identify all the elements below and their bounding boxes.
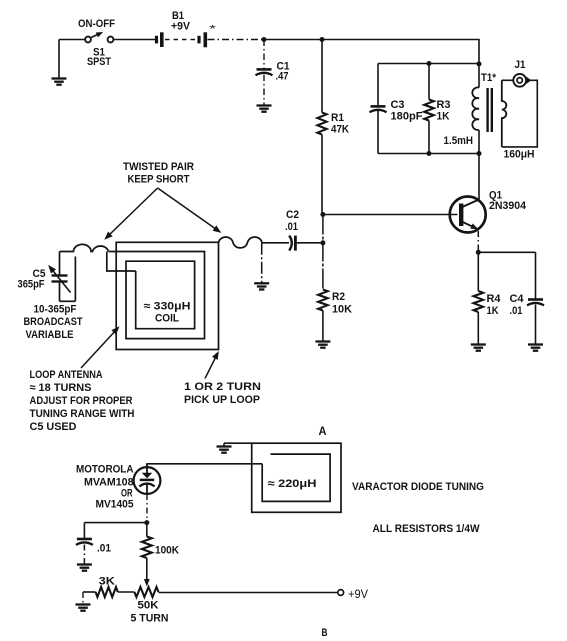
wire - base wire from R1 column to Q1 xyxy=(322,214,458,216)
svg-text:BROADCAST: BROADCAST xyxy=(24,316,83,328)
svg-text:ALL RESISTORS 1/4W: ALL RESISTORS 1/4W xyxy=(373,523,481,535)
transformer T1 core xyxy=(486,88,488,132)
svg-text:1K: 1K xyxy=(437,111,450,123)
jack J1 xyxy=(513,74,526,87)
ground - below switch S1 xyxy=(58,40,60,79)
svg-text:ADJUST FOR PROPER: ADJUST FOR PROPER xyxy=(30,395,133,407)
wire - emitter junction to C4 xyxy=(478,251,535,253)
wire - twisted pair to C2 xyxy=(262,242,263,244)
ground - below R4 xyxy=(471,343,486,345)
wire - ground drop from twisted pair xyxy=(261,243,263,283)
svg-text:SPST: SPST xyxy=(87,56,111,68)
wire - dashed link between battery cells xyxy=(165,39,196,41)
resistor R2 xyxy=(318,290,328,311)
wire - tank box left edge with C3 xyxy=(377,64,379,107)
transistor Q1 2N3904 xyxy=(450,197,486,233)
potentiometer 50K 5 TURN xyxy=(134,587,158,597)
ground - below right twisted pair xyxy=(254,282,269,284)
svg-text:50K: 50K xyxy=(138,600,159,612)
wire - varactor cathode down xyxy=(146,494,148,523)
transformer T1 primary winding xyxy=(478,64,480,88)
svg-text:≈ 330μH: ≈ 330μH xyxy=(144,301,191,313)
wire - arrow to left twisted pair xyxy=(107,188,158,238)
ground - below C1 xyxy=(257,104,272,106)
capacitor C2 xyxy=(262,242,289,244)
battery B1 cell 1 xyxy=(155,36,158,44)
resistor 100K xyxy=(146,523,148,537)
capacitor C4 xyxy=(528,298,543,301)
capacitor C1 xyxy=(263,40,265,70)
ground - below C4 xyxy=(528,343,543,345)
wire - arrow from LOOP ANTENNA text to coil xyxy=(81,329,118,369)
svg-text:J1: J1 xyxy=(515,59,526,71)
capacitor C5 variable xyxy=(59,252,61,276)
svg-text:ON-OFF: ON-OFF xyxy=(78,18,115,30)
svg-text:VARIABLE: VARIABLE xyxy=(26,329,74,341)
node - varactor bias junction xyxy=(144,520,149,525)
terminal +9V xyxy=(338,590,344,596)
capacitor C3 xyxy=(371,105,386,108)
node - tank bottom junction at T1 xyxy=(477,151,482,156)
loop antenna coil spiral xyxy=(109,252,205,339)
svg-text:.01: .01 xyxy=(510,305,523,317)
wire - switch to battery xyxy=(113,39,155,41)
svg-text:C2: C2 xyxy=(286,209,299,221)
varactor tuning coil outer box xyxy=(252,443,341,512)
ground - varactor tuning coil xyxy=(224,442,252,444)
pick up loop rectangle xyxy=(116,242,218,349)
wire - left twisted pair xyxy=(60,244,109,251)
wire - arrow from PICK UP LOOP text to loop xyxy=(205,354,218,379)
svg-text:1.5mH: 1.5mH xyxy=(444,135,474,147)
svg-text:KEEP SHORT: KEEP SHORT xyxy=(128,174,190,186)
battery B1 cell 2 xyxy=(197,36,200,44)
resistor 3K xyxy=(96,587,118,597)
wire - bottom rail to +9V terminal xyxy=(159,592,338,594)
svg-text:C3: C3 xyxy=(391,99,405,111)
wire - battery to node, dash-dot xyxy=(208,39,264,41)
svg-text:10K: 10K xyxy=(332,304,352,316)
svg-text:TUNING RANGE WITH: TUNING RANGE WITH xyxy=(30,408,135,420)
wire - tank box top edge xyxy=(378,63,479,65)
wire - top rail R1 node to right corner and down xyxy=(322,40,479,64)
wire - secondary top to jack J1 xyxy=(502,79,513,81)
wire - tank box bottom edge xyxy=(378,153,479,155)
wire - junction to bypass cap xyxy=(84,522,146,524)
node - emitter junction xyxy=(476,250,481,255)
svg-text:R2: R2 xyxy=(332,291,345,303)
svg-text:≈ 220μH: ≈ 220μH xyxy=(268,478,317,490)
svg-text:5 TURN: 5 TURN xyxy=(131,613,169,625)
svg-text:A: A xyxy=(319,426,327,438)
svg-text:MOTOROLA: MOTOROLA xyxy=(76,464,134,476)
wire - top rail C1 node to R1 node xyxy=(264,39,322,41)
svg-text:1K: 1K xyxy=(487,305,499,317)
wire - arrow to right twisted pair xyxy=(158,188,219,231)
ground - below R2 xyxy=(315,340,330,342)
wire - tank to Q1 collector xyxy=(478,154,480,202)
svg-text:365pF: 365pF xyxy=(18,279,45,291)
capacitor .01 bypass xyxy=(77,538,92,541)
svg-text:100K: 100K xyxy=(155,545,179,557)
wire - top rail left segment from switch corner xyxy=(59,39,85,41)
wire - bottom rail left end xyxy=(83,591,96,593)
resistor R1 xyxy=(321,40,323,113)
svg-text:COIL: COIL xyxy=(155,313,179,325)
svg-text:3K: 3K xyxy=(99,576,115,588)
svg-text:*: * xyxy=(209,24,216,35)
wire - varactor anode to coil xyxy=(147,464,262,467)
node - tank top junction at T1 xyxy=(477,61,482,66)
wire - antenna feed into spiral xyxy=(107,252,136,272)
resistor R4 xyxy=(477,252,479,291)
svg-text:C5 USED: C5 USED xyxy=(30,421,77,433)
svg-text:R1: R1 xyxy=(331,112,344,124)
wire - 3K to 50K pot xyxy=(118,591,135,593)
svg-text:C4: C4 xyxy=(510,293,525,305)
node - R3 top junction xyxy=(427,61,432,66)
wire - right twisted pair xyxy=(219,237,263,248)
node - junction at C1 xyxy=(262,37,267,42)
svg-text:47K: 47K xyxy=(331,124,349,136)
svg-text:R4: R4 xyxy=(487,293,502,305)
wire - Q1 emitter down to junction xyxy=(477,231,479,252)
svg-text:10-365pF: 10-365pF xyxy=(34,304,77,316)
svg-text:LOOP ANTENNA: LOOP ANTENNA xyxy=(30,369,103,381)
svg-text:1 OR 2 TURN: 1 OR 2 TURN xyxy=(184,381,261,393)
node - R3 bottom junction xyxy=(427,151,432,156)
svg-text:VARACTOR DIODE TUNING: VARACTOR DIODE TUNING xyxy=(352,481,484,493)
ground - bottom rail left xyxy=(82,592,84,605)
node - junction at R1 xyxy=(320,37,325,42)
svg-text:T1*: T1* xyxy=(481,72,497,84)
svg-text:R3: R3 xyxy=(437,99,451,111)
svg-text:.01: .01 xyxy=(285,221,298,233)
resistor R3 xyxy=(428,64,430,100)
wire - R1 column through junctions down to R2 xyxy=(322,215,324,290)
svg-text:+9V: +9V xyxy=(348,589,368,601)
ground - below bypass cap xyxy=(77,563,92,565)
svg-text:B: B xyxy=(322,627,328,639)
node - C2 junction xyxy=(320,240,325,245)
wire - J1 loop right side and bottom xyxy=(502,80,538,147)
varactor tuning coil inner box xyxy=(262,454,330,501)
svg-text:2N3904: 2N3904 xyxy=(489,200,527,212)
wire - 100K to potentiometer wiper arrow xyxy=(146,558,148,582)
switch S1 SPST xyxy=(85,37,91,43)
svg-text:≈ 18 TURNS: ≈ 18 TURNS xyxy=(30,382,92,394)
varactor diode D1 MVAM108 xyxy=(134,467,161,494)
svg-text:+9V: +9V xyxy=(171,21,191,33)
svg-text:160μH: 160μH xyxy=(504,149,535,161)
svg-text:PICK UP LOOP: PICK UP LOOP xyxy=(184,394,260,406)
svg-text:.01: .01 xyxy=(97,543,111,555)
svg-text:TWISTED PAIR: TWISTED PAIR xyxy=(123,161,194,173)
transformer T1 secondary winding xyxy=(502,80,507,147)
svg-text:MV1405: MV1405 xyxy=(96,499,134,511)
svg-text:.47: .47 xyxy=(276,71,289,83)
node - base junction xyxy=(320,212,325,217)
svg-text:180pF: 180pF xyxy=(391,111,423,123)
